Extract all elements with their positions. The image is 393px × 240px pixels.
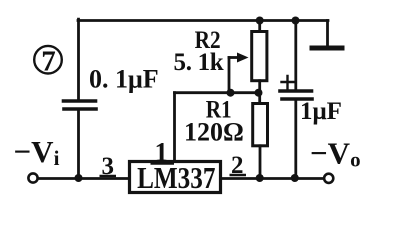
svg-text:−Vi: −Vi (14, 134, 60, 170)
junction dot: C1 / bottom rail (75, 174, 83, 182)
junction dot: C2 / bottom rail (291, 174, 299, 182)
svg-text:120Ω: 120Ω (184, 118, 244, 147)
IC U1 LM337 box (130, 162, 221, 193)
junction dot: top rail / R2 (256, 17, 264, 25)
terminal -Vi (28, 173, 37, 182)
junction dot: R2 bottom node (255, 89, 263, 97)
wire bottom rail right (pin 2 side) (221, 177, 323, 180)
ground (312, 46, 342, 51)
wire C2 bottom to rail (294, 101, 297, 179)
potentiometer R2 body (252, 32, 267, 81)
potentiometer wiper arrow of R2 (229, 56, 239, 59)
capacitor C1 plates 0.1uF (64, 101, 97, 109)
junction dot: wiper / ADJ wire (227, 89, 235, 97)
wire ADJ horizontal (175, 91, 259, 94)
junction dot: top rail / C2 (292, 17, 300, 25)
junction dot: R1 / bottom rail (256, 174, 264, 182)
terminal -Vo (324, 174, 333, 183)
pin label 3 (100, 153, 117, 180)
wire bottom rail left (pin 3 side) (39, 177, 130, 180)
svg-text:LM337: LM337 (137, 162, 215, 196)
svg-text:1μF: 1μF (300, 98, 342, 125)
wire rail to R2 top (258, 21, 261, 32)
pin label 2 (230, 152, 247, 179)
svg-text:0. 1μF: 0. 1μF (89, 65, 159, 94)
wire R1 bottom to rail (259, 146, 262, 179)
wire R2 bottom through node to R1 top (258, 81, 261, 104)
wire left vertical input to C1 (77, 19, 80, 99)
wire wiper down to ADJ node (228, 58, 231, 93)
svg-text:7: 7 (41, 46, 56, 78)
wire C1 bottom to bottom rail (77, 111, 80, 179)
resistor R1 body (253, 104, 268, 146)
wire ground drop (326, 21, 329, 47)
capacitor C2 plates 1uF (280, 91, 312, 99)
wire pin1 vertical to LM337 (173, 93, 176, 161)
circled number 7 (34, 46, 62, 78)
wire C2 vertical from top rail (294, 21, 297, 90)
polarity plus of C2 (282, 76, 295, 89)
arrowhead of R2 wiper (237, 53, 249, 63)
wire top rail (78, 19, 328, 22)
pin label 1 (151, 137, 175, 167)
svg-text:5. 1k: 5. 1k (174, 49, 224, 76)
